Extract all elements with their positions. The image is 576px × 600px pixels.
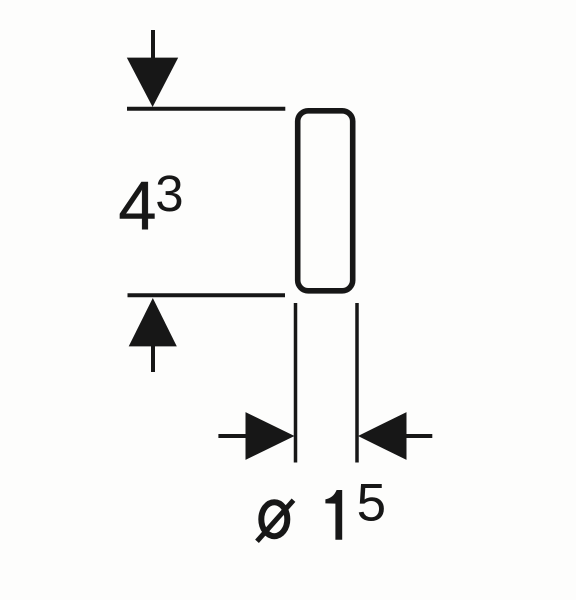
svg-text:5: 5 (357, 474, 386, 533)
svg-text:3: 3 (155, 165, 183, 222)
svg-text:4: 4 (118, 167, 156, 244)
